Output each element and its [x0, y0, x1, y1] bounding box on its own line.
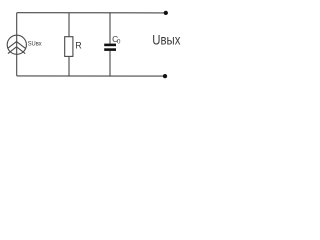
- svg-text:0: 0: [117, 39, 121, 46]
- svg-text:Uвых: Uвых: [152, 32, 181, 47]
- svg-text:SUвх: SUвх: [28, 40, 43, 48]
- svg-text:R: R: [75, 41, 82, 51]
